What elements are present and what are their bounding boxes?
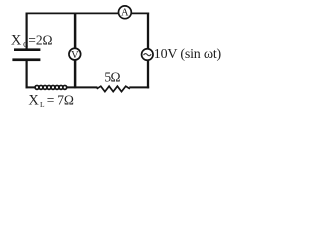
- svg-text:A: A: [121, 8, 129, 19]
- svg-text:7Ω: 7Ω: [57, 93, 74, 108]
- svg-text:2Ω: 2Ω: [36, 32, 53, 47]
- svg-text:X: X: [11, 32, 22, 48]
- svg-text:=: =: [28, 32, 35, 47]
- svg-text:V: V: [71, 50, 79, 61]
- svg-text:X: X: [28, 93, 39, 109]
- svg-text:L: L: [40, 100, 45, 109]
- svg-text:10V (sin ωt): 10V (sin ωt): [154, 47, 222, 62]
- svg-text:5Ω: 5Ω: [104, 69, 120, 84]
- svg-text:=: =: [47, 93, 54, 108]
